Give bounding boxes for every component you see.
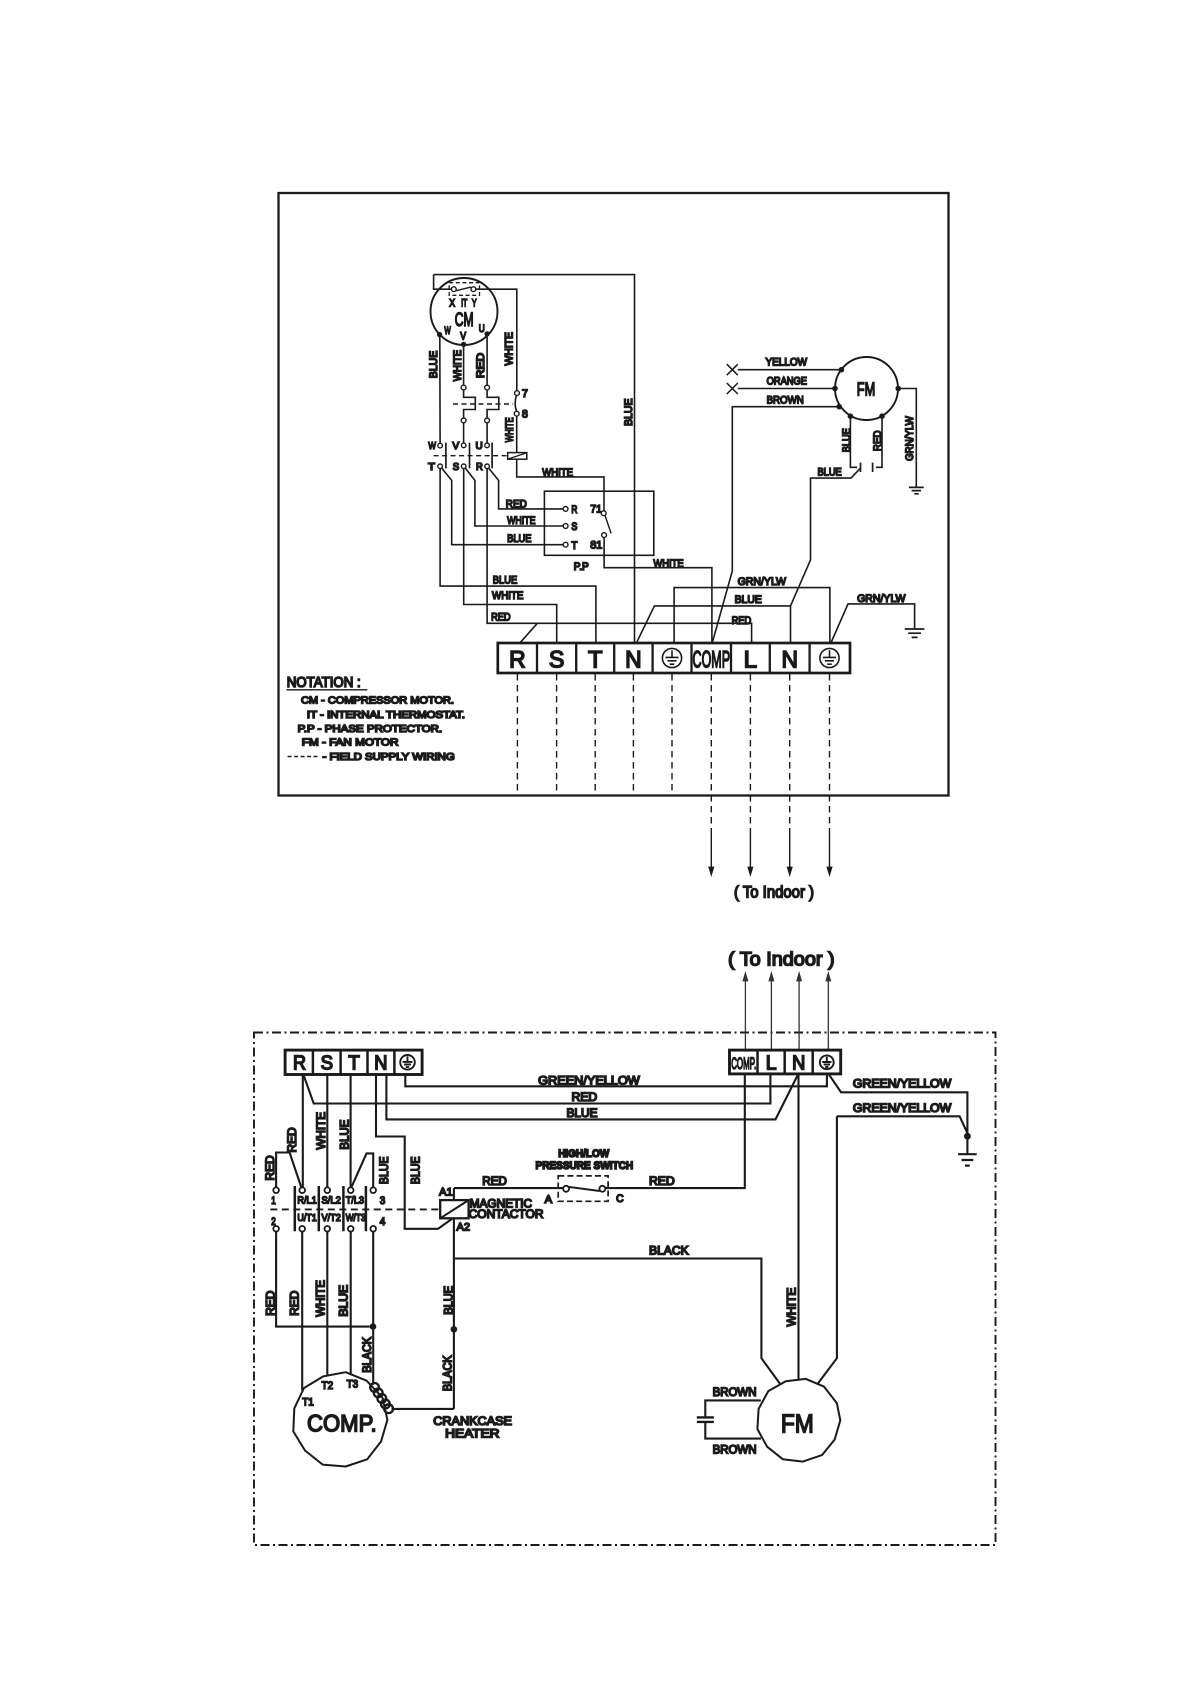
svg-text:PRESSURE SWITCH: PRESSURE SWITCH: [536, 1160, 634, 1172]
terminal block dividers: [537, 643, 810, 673]
FM dot earth: [895, 386, 901, 392]
svg-text:4: 4: [380, 1216, 386, 1228]
red lead spade tick: [872, 463, 874, 472]
svg-text:X: X: [449, 297, 455, 309]
switch blade 7-8: [515, 395, 516, 411]
wire CM V white lead upper: [463, 344, 465, 385]
svg-text:Y: Y: [472, 297, 477, 309]
BLACK wire to FM: [454, 1259, 780, 1384]
svg-text:A2: A2: [457, 1221, 471, 1233]
svg-text:A: A: [545, 1194, 553, 1206]
svg-text:BLUE: BLUE: [377, 1156, 391, 1184]
field supply dashed line earth: [671, 674, 673, 795]
svg-text:RED: RED: [263, 1155, 277, 1180]
svg-text:BLUE: BLUE: [493, 574, 517, 586]
RED branch diagonal into R terminal: [520, 623, 538, 643]
compressor motor COMP circle: [293, 1372, 387, 1466]
svg-text:GRN/YLW: GRN/YLW: [857, 593, 906, 605]
svg-text:U: U: [479, 323, 485, 335]
svg-text:RED: RED: [482, 1174, 507, 1188]
earth terminal right: [820, 648, 839, 667]
wire from IT Y contact to white drop: [476, 289, 517, 391]
BLUE link N to N: [386, 1075, 798, 1120]
ground symbol right: [905, 629, 925, 637]
wire to ground: [966, 1136, 968, 1154]
ground junction dot: [964, 1133, 971, 1140]
P.P terminal T: [563, 542, 568, 547]
svg-text:WHITE: WHITE: [653, 558, 683, 570]
svg-text:3: 3: [380, 1195, 386, 1207]
svg-text:BLUE: BLUE: [735, 594, 762, 606]
wire T phase down: [350, 1075, 352, 1188]
svg-text:R/L1: R/L1: [297, 1195, 316, 1207]
svg-text:W/T3: W/T3: [346, 1212, 366, 1224]
svg-text:GREEN/YELLOW: GREEN/YELLOW: [853, 1077, 952, 1091]
svg-text:YELLOW: YELLOW: [766, 357, 808, 369]
svg-text:V/T2: V/T2: [322, 1212, 341, 1224]
svg-text:R: R: [509, 646, 526, 673]
contact 4: [370, 1226, 376, 1232]
switch contact 7: [515, 391, 520, 396]
svg-text:BLUE: BLUE: [408, 1156, 422, 1184]
top diagram outer frame: [279, 193, 949, 796]
magnetic contactor coil: [440, 1200, 468, 1218]
svg-text:BLUE: BLUE: [337, 1119, 351, 1149]
field supply dashed line L with arrow: [749, 674, 751, 832]
indoor block COMP L N earth: [730, 1050, 841, 1074]
blue lead spade tick: [860, 463, 862, 472]
wire A1 up to RED: [453, 1188, 455, 1200]
svg-text:V: V: [460, 331, 466, 343]
svg-text:S: S: [571, 521, 577, 533]
FM dot blue: [848, 413, 854, 419]
coil diagonal: [440, 1200, 468, 1218]
svg-text:S: S: [453, 461, 459, 473]
svg-text:BLUE: BLUE: [818, 466, 842, 478]
wire R straight long RED run to L: [487, 469, 751, 644]
earth terminal left: [662, 648, 681, 667]
wire CM W blue lead: [439, 335, 441, 444]
quick-connect bar V/S: [469, 443, 471, 469]
fan motor FM circle bottom: [757, 1379, 840, 1462]
jumper T/L3 to 3: [352, 1153, 374, 1187]
connector circle U upper: [485, 385, 490, 390]
svg-text:COMP.: COMP.: [307, 1410, 377, 1437]
connector circle U lower: [485, 418, 490, 423]
wire A2 down chain: [453, 1218, 455, 1409]
indoor arrow earth: [827, 981, 829, 1051]
indoor arrow COMP: [744, 981, 746, 1051]
svg-text:BLUE: BLUE: [623, 399, 635, 427]
svg-text:W: W: [428, 440, 436, 452]
svg-text:WHITE: WHITE: [504, 332, 516, 366]
GREEN/YELLOW link earth-earth: [405, 1074, 827, 1086]
svg-text:RED: RED: [649, 1174, 675, 1188]
svg-text:T: T: [571, 540, 577, 552]
svg-text:CM: CM: [455, 309, 474, 331]
svg-text:- FIELD SUPPLY WIRING: - FIELD SUPPLY WIRING: [323, 752, 455, 763]
svg-text:WHITE: WHITE: [314, 1280, 328, 1317]
terminal block outer: [498, 643, 850, 673]
wire YELLOW: [738, 369, 842, 371]
quick-connect circle V: [461, 443, 466, 448]
svg-text:RED: RED: [263, 1291, 277, 1316]
CM terminal dot U: [484, 331, 489, 336]
svg-text:BLUE: BLUE: [428, 351, 440, 379]
GRN/YLW link earth to earth: [674, 588, 830, 644]
X cut mark orange: [727, 383, 738, 394]
P.P contact 81: [602, 533, 607, 538]
heater wire to A2 chain: [392, 1408, 454, 1410]
crankcase heater coil: [370, 1383, 393, 1413]
RED wire A1 to pressure switch A: [454, 1187, 563, 1189]
contact U/T1: [299, 1226, 305, 1232]
contactor contact circles top row: [273, 1187, 376, 1231]
plug jog U: [487, 390, 499, 418]
svg-text:WHITE: WHITE: [504, 417, 516, 442]
svg-text:HIGH/LOW: HIGH/LOW: [558, 1148, 610, 1160]
wire V to quick-connect: [463, 423, 465, 443]
svg-text:S: S: [321, 1053, 333, 1075]
connector circle V upper: [461, 385, 466, 390]
contact T/L3: [348, 1187, 354, 1193]
NOTATION underline: [286, 689, 367, 691]
svg-text:WHITE: WHITE: [785, 1287, 799, 1326]
field supply dashed line R: [516, 674, 518, 795]
quick-connect circle T: [438, 464, 443, 469]
svg-text:T1: T1: [302, 1397, 314, 1409]
BROWN wire bottom from capacitor: [705, 1422, 761, 1438]
svg-text:RED: RED: [572, 1090, 598, 1104]
wire S straight to WHITE run: [464, 469, 557, 643]
field supply dashed line S: [556, 674, 558, 795]
svg-text:1: 1: [271, 1195, 276, 1207]
svg-text:C: C: [616, 1193, 624, 1205]
compressor motor CM: [431, 278, 498, 345]
wire from IT X contact to top-left: [434, 275, 452, 290]
svg-text:N: N: [781, 646, 798, 673]
svg-text:FM: FM: [857, 379, 875, 399]
svg-text:GREEN/YELLOW: GREEN/YELLOW: [853, 1101, 952, 1115]
BLUE link N to N: [636, 606, 790, 643]
GREEN/YELLOW down to FM earth: [818, 1116, 837, 1383]
FM red lead: [876, 416, 882, 467]
jumper R/L1 to 1: [276, 1153, 301, 1188]
GREEN/YELLOW second wire to ground: [837, 1116, 967, 1132]
svg-text:BLUE: BLUE: [337, 1285, 351, 1317]
field supply dashed line earth2 with arrow: [829, 674, 831, 832]
wire BROWN to COMP: [712, 407, 839, 643]
overload rectangle: [508, 453, 527, 460]
phase protector P.P box: [544, 491, 653, 555]
switch contact A: [563, 1186, 569, 1192]
RED wire C to COMP terminal: [605, 1074, 744, 1188]
wire CM U red lead upper: [486, 334, 488, 385]
wire V/T2 to COMP T2: [326, 1232, 328, 1375]
IT contact X: [451, 287, 456, 292]
svg-text:81: 81: [590, 539, 602, 551]
svg-text:RED: RED: [475, 353, 487, 378]
svg-text:WHITE: WHITE: [314, 1112, 328, 1150]
svg-text:IT - INTERNAL THERMOSTAT.: IT - INTERNAL THERMOSTAT.: [307, 710, 465, 721]
notation dashes: [288, 756, 318, 758]
contact 3: [370, 1187, 376, 1193]
svg-text:L: L: [766, 1052, 777, 1074]
X cut mark yellow: [727, 364, 738, 375]
contact W/T3: [348, 1226, 354, 1232]
wire 2 to heater junction: [276, 1232, 370, 1327]
svg-text:T/L3: T/L3: [346, 1195, 364, 1207]
overload diagonal: [508, 453, 527, 459]
svg-text:NOTATION :: NOTATION :: [287, 675, 361, 691]
svg-text:RED: RED: [872, 430, 884, 451]
capacitor plates: [697, 1417, 714, 1422]
svg-text:N: N: [374, 1053, 387, 1075]
FM dot orange: [832, 386, 838, 392]
contact R/L1: [299, 1187, 305, 1193]
wire W/T3 to COMP T3: [350, 1232, 352, 1374]
svg-text:WHITE: WHITE: [542, 467, 573, 479]
contact V/T2: [325, 1226, 331, 1232]
wire S phase down: [326, 1075, 328, 1188]
svg-text:BLUE: BLUE: [841, 428, 853, 452]
quick-connect circle W: [438, 443, 443, 448]
svg-text:CM - COMPRESSOR MOTOR.: CM - COMPRESSOR MOTOR.: [301, 696, 454, 707]
switch contact 8: [514, 411, 519, 416]
svg-text:S: S: [549, 646, 565, 673]
svg-text:BLACK: BLACK: [360, 1337, 374, 1373]
svg-text:RED: RED: [732, 615, 752, 627]
svg-text:IT: IT: [461, 297, 467, 309]
wire ORANGE: [738, 388, 835, 390]
svg-text:8: 8: [522, 408, 528, 420]
switch contact C: [599, 1186, 605, 1192]
quick-connect circle U: [485, 443, 490, 448]
svg-text:GRN/YLW: GRN/YLW: [904, 416, 916, 461]
svg-text:GRN/YLW: GRN/YLW: [738, 576, 787, 588]
quick-connect bar U/R: [491, 443, 493, 469]
switch blade: [569, 1187, 600, 1191]
field supply dashed line N2 with arrow: [789, 674, 791, 832]
wire U/T1 to COMP T1: [301, 1232, 303, 1391]
svg-text:T: T: [348, 1053, 360, 1075]
svg-text:2: 2: [271, 1216, 276, 1228]
FM dot yellow: [839, 367, 845, 373]
svg-text:HEATER: HEATER: [445, 1427, 499, 1441]
svg-text:L: L: [744, 646, 758, 673]
ground symbol at FM: [909, 487, 924, 493]
svg-text:S/L2: S/L2: [322, 1195, 341, 1207]
FM blue lead: [850, 416, 857, 467]
plug connector dashed line: [453, 403, 513, 405]
contact 1: [273, 1187, 279, 1193]
wire S diag to P.P S: [465, 468, 563, 526]
svg-text:RED: RED: [506, 499, 527, 511]
svg-text:T2: T2: [322, 1380, 334, 1392]
indoor arrow L: [770, 981, 772, 1051]
quick-connect circle S: [461, 464, 466, 469]
A2 junction dot: [451, 1326, 458, 1333]
P.P contact 71: [601, 511, 606, 516]
wire R phase down: [302, 1075, 304, 1188]
high/low pressure switch dashed box: [558, 1176, 608, 1201]
contact bars: [295, 1186, 366, 1231]
CM terminal dot V: [461, 342, 466, 347]
quick-connect circle R: [485, 464, 490, 469]
quick-connect bar W/T: [445, 443, 447, 469]
svg-text:BROWN: BROWN: [713, 1442, 757, 1456]
svg-text:BLACK: BLACK: [441, 1355, 455, 1391]
P.P terminal S: [563, 524, 568, 529]
svg-text:BLUE: BLUE: [442, 1286, 456, 1315]
svg-text:CONTACTOR: CONTACTOR: [469, 1207, 544, 1221]
svg-text:V: V: [452, 440, 459, 452]
wire 81 to COMP: [604, 538, 712, 644]
svg-text:71: 71: [590, 504, 602, 516]
power block R S T N earth: [285, 1050, 422, 1074]
IT contact Y: [471, 287, 476, 292]
svg-text:R: R: [293, 1053, 306, 1075]
bottom diagram dash-dot frame: [254, 1033, 996, 1546]
fan motor FM: [835, 357, 898, 420]
BROWN wire top to capacitor: [705, 1400, 761, 1417]
svg-text:FM: FM: [781, 1408, 814, 1438]
FM dot red: [879, 413, 885, 419]
svg-text:WHITE: WHITE: [452, 350, 464, 382]
svg-text:7: 7: [522, 388, 528, 400]
contact S/L2: [325, 1187, 331, 1193]
wire U to quick-connect: [486, 423, 488, 443]
svg-text:BROWN: BROWN: [713, 1385, 757, 1399]
svg-text:WHITE: WHITE: [507, 515, 535, 527]
wire 8 to overload: [516, 416, 518, 453]
wire 4 to heater junction: [372, 1232, 374, 1385]
contactor mechanical dashed line: [270, 1208, 440, 1210]
svg-text:RED: RED: [288, 1291, 302, 1316]
internal thermostat IT dashed box: [449, 283, 479, 296]
indoor arrow N: [798, 981, 800, 1051]
svg-text:R: R: [571, 504, 577, 516]
wire top run to N (BLUE): [434, 275, 635, 643]
svg-text:BROWN: BROWN: [767, 394, 804, 406]
wire N to contactor coil A2: [376, 1075, 452, 1229]
wire overload to P.P 71: [517, 459, 604, 511]
svg-text:W: W: [444, 325, 451, 337]
svg-text:WHITE: WHITE: [492, 590, 523, 602]
P.P blade 71-81: [605, 515, 611, 533]
GRN/YLW wire earth terminal to frame ground: [831, 604, 915, 643]
svg-text:GREEN/YELLOW: GREEN/YELLOW: [538, 1074, 641, 1088]
svg-text:N: N: [792, 1052, 805, 1074]
WHITE wire N to FM: [797, 1074, 799, 1379]
RED link R to L: [304, 1074, 771, 1103]
quick-connect dashed line: [434, 455, 508, 457]
incoming BLUE wire with spade diagonal: [791, 468, 861, 606]
GREEN/YELLOW earth to ground: [829, 1074, 968, 1133]
svg-text:ORANGE: ORANGE: [767, 376, 807, 388]
wire GRN/YLW to ground: [898, 389, 916, 488]
svg-text:A1: A1: [439, 1186, 453, 1198]
svg-text:( To Indoor ): ( To Indoor ): [728, 948, 835, 970]
svg-text:P.P: P.P: [574, 561, 589, 573]
ground symbol bottom right: [958, 1154, 977, 1165]
svg-text:T3: T3: [347, 1378, 359, 1390]
P.P terminal R: [563, 507, 568, 512]
IT contact blade: [456, 287, 471, 291]
FM dot brown: [836, 404, 842, 410]
svg-text:U: U: [476, 440, 483, 452]
field supply dashed line COMP with arrow: [710, 674, 712, 832]
plug jog V: [464, 390, 476, 418]
earth symbol indoor block: [820, 1055, 834, 1069]
svg-text:P.P - PHASE PROTECTOR.: P.P - PHASE PROTECTOR.: [298, 724, 443, 735]
svg-text:BLACK: BLACK: [649, 1243, 689, 1257]
field supply dashed line T: [594, 674, 596, 795]
svg-text:R: R: [476, 461, 483, 473]
svg-text:RED: RED: [491, 611, 510, 623]
svg-text:RED: RED: [285, 1127, 299, 1152]
svg-text:N: N: [625, 646, 642, 673]
svg-text:( To Indoor ): ( To Indoor ): [734, 883, 814, 902]
wire T diag to P.P T: [442, 468, 563, 545]
connector circle V lower: [461, 418, 466, 423]
wire T straight to BLUE run: [440, 469, 596, 643]
svg-text:FM - FAN MOTOR: FM - FAN MOTOR: [302, 738, 399, 749]
wire R diag to P.P R: [489, 468, 563, 509]
svg-text:U/T1: U/T1: [297, 1212, 316, 1224]
CM terminal dot W: [437, 332, 442, 337]
svg-text:BLUE: BLUE: [507, 533, 531, 545]
svg-text:T: T: [588, 646, 603, 673]
svg-text:BLUE: BLUE: [567, 1106, 598, 1120]
heater junction dot: [370, 1323, 377, 1330]
svg-text:COMP: COMP: [693, 646, 731, 673]
svg-text:COMP.: COMP.: [731, 1054, 756, 1073]
svg-text:T: T: [428, 461, 435, 473]
contact 2: [273, 1226, 279, 1232]
field supply dashed line N: [632, 674, 634, 795]
earth symbol left block: [400, 1055, 415, 1070]
